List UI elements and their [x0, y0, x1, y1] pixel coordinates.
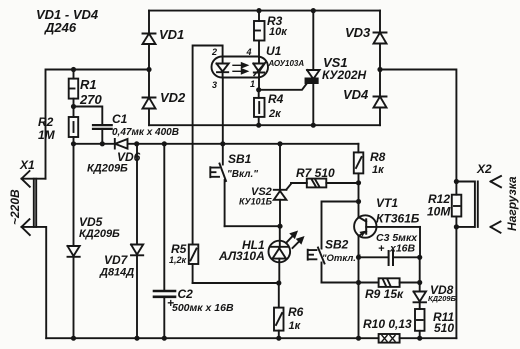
- junction bottom rail / emitter column: [356, 336, 361, 341]
- svg-text:КД209Б: КД209Б: [79, 228, 120, 240]
- wire SB2 branch: [322, 202, 359, 249]
- resistor R12: [452, 195, 462, 217]
- junction control rail / VS2: [277, 141, 282, 146]
- pin number 3: [212, 80, 217, 90]
- junction X2 upper: [454, 179, 459, 184]
- svg-text:VD7: VD7: [104, 253, 129, 267]
- svg-text:U1: U1: [266, 44, 282, 58]
- svg-text:КУ101Б: КУ101Б: [239, 197, 273, 207]
- resistor R4: [254, 92, 265, 125]
- svg-text:270: 270: [79, 92, 102, 107]
- svg-text:R7 510: R7 510: [296, 166, 335, 180]
- svg-text:R2: R2: [38, 115, 54, 129]
- pushbutton SB2: [308, 248, 325, 283]
- junction bridge bottom / R4: [256, 123, 261, 128]
- svg-text:"Откл.": "Откл.": [322, 253, 361, 264]
- wire VD3-VD4 column: [379, 11, 381, 126]
- wire U1 pin1 to R4 node: [258, 78, 260, 90]
- wire U1 pin3 down to control rail: [222, 78, 224, 144]
- wire VS2 gate to R7: [291, 182, 307, 184]
- label VD1: [159, 27, 184, 42]
- wire U1 pin2 to R5 column: [193, 46, 223, 245]
- wire R9 rail: [322, 282, 420, 284]
- label R6: [288, 305, 304, 332]
- label R5: [169, 242, 187, 265]
- svg-text:R5: R5: [171, 242, 187, 256]
- junction bottom rail / VD7: [134, 336, 139, 341]
- svg-text:1к: 1к: [372, 164, 385, 176]
- optocoupler U1 photothyristor element: [253, 57, 265, 78]
- label SB1: [227, 152, 258, 180]
- junction R9 / VD8 column: [417, 280, 422, 285]
- svg-text:R10 0,13: R10 0,13: [363, 317, 412, 331]
- svg-text:х16В: х16В: [389, 243, 416, 255]
- resistor R11: [415, 309, 425, 331]
- resistor R1: [69, 70, 79, 118]
- wire C1 branch: [74, 107, 103, 126]
- svg-text:C2: C2: [178, 287, 194, 301]
- diode VD3: [374, 33, 387, 44]
- optocoupler U1 LED element: [217, 57, 229, 78]
- resistor R8: [354, 152, 364, 217]
- label HL1: [218, 238, 265, 263]
- svg-text:SB1: SB1: [228, 152, 252, 166]
- svg-text:Д814Д: Д814Д: [99, 267, 134, 279]
- wire VD1-VD2 column: [148, 11, 150, 126]
- svg-text:R8: R8: [370, 150, 386, 164]
- svg-text:VD5: VD5: [79, 215, 103, 229]
- resistor R7: [307, 179, 359, 188]
- junction top rail / R3: [256, 8, 261, 13]
- label ~220V rotated: [8, 189, 22, 225]
- resistor R2: [69, 117, 79, 144]
- wire R8 column top: [357, 144, 359, 153]
- junction top rail / VS1: [311, 8, 316, 13]
- label R3: [267, 14, 288, 38]
- svg-text:R1: R1: [80, 77, 97, 92]
- label VD4: [343, 87, 369, 102]
- junction R8 / SB2 wire: [356, 199, 361, 204]
- pin number 4: [246, 47, 252, 57]
- svg-text:АЛ310А: АЛ310А: [218, 249, 265, 263]
- optocoupler U1 body: [212, 57, 269, 78]
- label VD8: [428, 283, 457, 303]
- label U1: [266, 44, 304, 68]
- svg-text:2к: 2к: [268, 108, 282, 120]
- junction left AC rail / bridge: [146, 67, 151, 72]
- junction control rail / SB1 / U1 pin3: [220, 141, 225, 146]
- junction VD3-VD4 / output: [377, 67, 382, 72]
- resistor R3: [254, 11, 265, 57]
- diode VD6: [115, 139, 128, 149]
- svg-text:1,2к: 1,2к: [169, 255, 187, 265]
- resistor R9: [379, 278, 400, 287]
- wire top rail of bridge: [149, 10, 380, 12]
- wire emitter column to R9 rail: [358, 257, 360, 282]
- wire VD8 column: [419, 257, 421, 338]
- svg-text:VD4: VD4: [343, 87, 369, 102]
- capacitor C1: [93, 125, 112, 144]
- svg-text:R9 15к: R9 15к: [365, 287, 404, 301]
- junction left AC rail / R1: [71, 67, 76, 72]
- wire left AC rail: [46, 70, 150, 179]
- wire X2 column: [455, 182, 457, 339]
- svg-text:1М: 1М: [38, 128, 56, 142]
- junction bridge bottom / VS1: [311, 123, 316, 128]
- svg-text:VD2: VD2: [160, 90, 186, 105]
- junction control rail / C2: [162, 141, 167, 146]
- svg-text:1: 1: [250, 79, 255, 89]
- label VD5: [79, 215, 120, 240]
- capacitor C3: [359, 251, 420, 265]
- junction bottom rail / R6: [276, 336, 281, 341]
- svg-text:10М: 10М: [427, 205, 451, 219]
- junction bottom rail / C2: [162, 336, 167, 341]
- label VS2: [239, 186, 273, 207]
- svg-text:3: 3: [212, 80, 217, 90]
- label Load rotated: [505, 176, 519, 231]
- diode VD1: [143, 34, 156, 45]
- svg-text:10к: 10к: [269, 26, 288, 38]
- node label VD1-VD4 type: [36, 7, 99, 35]
- label VD6: [87, 150, 141, 175]
- label R7: [296, 166, 335, 180]
- junction control rail / C1: [100, 141, 105, 146]
- svg-text:VT1: VT1: [376, 196, 398, 210]
- svg-text:Д246: Д246: [44, 20, 77, 35]
- junction bottom rail / VD5: [71, 336, 76, 341]
- junction R9 rail / emitter column: [356, 280, 361, 285]
- capacitor C2: [154, 144, 175, 338]
- connector X2: [456, 176, 501, 233]
- label VD3: [345, 25, 371, 40]
- connector X1: [22, 171, 46, 235]
- svg-text:Нагрузка: Нагрузка: [505, 176, 519, 231]
- label R4: [268, 92, 284, 120]
- svg-text:X2: X2: [476, 162, 492, 176]
- svg-text:X1: X1: [19, 158, 35, 172]
- svg-text:VD3: VD3: [345, 25, 371, 40]
- svg-text:C1: C1: [112, 112, 128, 126]
- label C3: [376, 232, 418, 255]
- svg-text:500мк x 16В: 500мк x 16В: [172, 302, 234, 314]
- label VD2: [160, 90, 186, 105]
- diode VD7: [131, 144, 143, 338]
- thyristor VS1: [306, 11, 320, 126]
- diode VD4: [374, 97, 387, 108]
- svg-text:4: 4: [246, 47, 252, 57]
- svg-text:АОУ103А: АОУ103А: [268, 59, 305, 68]
- svg-text:510: 510: [434, 321, 454, 335]
- diode VD5: [68, 144, 80, 338]
- junction C3 / base column: [417, 255, 422, 260]
- wire VT1 base down: [419, 227, 421, 257]
- junction R1 / R2 / C1 branch: [71, 104, 76, 109]
- label X2: [476, 162, 492, 176]
- wire X1 lower feed: [45, 227, 47, 338]
- thyristor VS2: [274, 144, 292, 226]
- resistor R5: [189, 245, 199, 284]
- pin number 2: [211, 47, 217, 57]
- wire VS1 gate: [261, 83, 308, 90]
- svg-text:КТ361Б: КТ361Б: [376, 212, 420, 226]
- wire emitter column to bottom rail: [358, 283, 360, 339]
- wire SB1 to HL1 column: [225, 225, 280, 227]
- wire control rail (after VD6): [74, 143, 359, 145]
- svg-text:VD1: VD1: [159, 27, 184, 42]
- diode VD8: [414, 292, 427, 303]
- label VT1: [376, 196, 420, 226]
- label R11: [433, 310, 454, 335]
- label R12: [427, 192, 451, 219]
- svg-text:R4: R4: [268, 92, 284, 106]
- junction X2 lower: [454, 224, 459, 229]
- label VD7: [99, 253, 134, 279]
- label C1: [112, 112, 179, 138]
- pushbutton SB1: [210, 144, 226, 226]
- resistor R10: [379, 334, 400, 343]
- junction control rail start / R2 / VD5: [71, 141, 76, 146]
- label R9: [365, 287, 404, 301]
- svg-text:~220В: ~220В: [8, 189, 22, 225]
- svg-text:КД209Б: КД209Б: [428, 294, 457, 303]
- label VS1: [322, 55, 367, 82]
- wire HL1 top/bottom leads: [278, 226, 281, 283]
- diode VD2: [143, 98, 156, 109]
- junction SB1 / VS2 / HL1: [277, 224, 282, 229]
- svg-text:1к: 1к: [289, 320, 302, 332]
- wire R5 to HL1 bottom: [193, 282, 279, 284]
- svg-text:КУ202Н: КУ202Н: [322, 68, 367, 82]
- label C2: [167, 287, 234, 314]
- junction HL1 / R5 wire / R6: [276, 280, 281, 285]
- svg-text:SB2: SB2: [325, 238, 349, 252]
- transistor VT1: [354, 215, 420, 257]
- junction VT1 emitter / C3: [356, 255, 361, 260]
- label R2: [38, 115, 56, 142]
- svg-text:R6: R6: [288, 305, 304, 319]
- LED HL1: [269, 232, 304, 262]
- label X1: [19, 158, 35, 172]
- wire bottom rail: [46, 337, 456, 339]
- resistor R6: [274, 283, 284, 338]
- label SB2: [322, 238, 361, 265]
- optocoupler U1 light arrows: [233, 63, 248, 74]
- junction pin1 / R4 / gate: [256, 87, 261, 92]
- svg-text:0,47мк x 400В: 0,47мк x 400В: [112, 127, 179, 138]
- label R10: [363, 317, 412, 331]
- svg-text:"Вкл.": "Вкл.": [227, 169, 258, 180]
- junction R8 / R7: [356, 180, 361, 185]
- wire right output to X2: [380, 70, 456, 182]
- label R1: [79, 77, 102, 107]
- label R8: [370, 150, 386, 176]
- wire bridge bottom rail: [149, 124, 380, 126]
- svg-text:КД209Б: КД209Б: [87, 163, 128, 175]
- junction bottom rail / R11: [417, 336, 422, 341]
- junction control rail / VD7: [134, 141, 139, 146]
- pin number 1: [250, 79, 255, 89]
- svg-text:+: +: [378, 243, 385, 255]
- svg-text:2: 2: [211, 47, 217, 57]
